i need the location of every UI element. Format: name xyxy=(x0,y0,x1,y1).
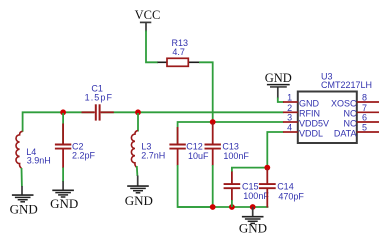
ground GND (L4) xyxy=(10,186,38,217)
svg-text:GND: GND xyxy=(10,202,38,217)
svg-text:470pF: 470pF xyxy=(278,192,304,202)
svg-text:1.5pF: 1.5pF xyxy=(85,92,114,102)
wire C15 top link xyxy=(232,168,267,172)
svg-text:VDDL: VDDL xyxy=(299,129,323,139)
pin 6 NC xyxy=(344,113,380,129)
node junction at C14 top xyxy=(264,165,270,171)
wire C12 to bottom net xyxy=(178,165,212,207)
svg-text:3: 3 xyxy=(287,113,292,123)
node junction VDD5V at C13 xyxy=(210,119,216,125)
wire C2 to GND xyxy=(62,168,64,182)
wire GND to pin 1 xyxy=(278,98,284,103)
svg-text:XOSC: XOSC xyxy=(331,98,357,108)
svg-text:VCC: VCC xyxy=(135,8,161,22)
power port VCC xyxy=(135,8,161,31)
pin 1 GND xyxy=(283,93,320,109)
svg-text:10uF: 10uF xyxy=(188,151,209,161)
node junction on RF net at L3 xyxy=(135,109,141,115)
wire main RF net xyxy=(23,112,94,132)
svg-text:8: 8 xyxy=(362,93,367,103)
svg-text:NC: NC xyxy=(344,109,357,119)
pin 3 VDD5V xyxy=(283,113,329,129)
svg-text:100nF: 100nF xyxy=(223,151,249,161)
svg-text:GND: GND xyxy=(299,98,320,108)
svg-text:1: 1 xyxy=(287,93,292,103)
svg-text:2.7nH: 2.7nH xyxy=(141,151,165,161)
svg-text:6: 6 xyxy=(362,113,367,123)
inductor L3 xyxy=(131,113,165,168)
svg-text:2: 2 xyxy=(287,103,292,113)
pin 2 RFIN xyxy=(283,103,320,119)
svg-text:DATA: DATA xyxy=(334,129,357,139)
power port GND (above U3) xyxy=(265,71,292,99)
wire L3 to GND xyxy=(136,166,139,176)
svg-text:GND: GND xyxy=(239,221,267,236)
svg-text:3.9nH: 3.9nH xyxy=(27,156,51,166)
capacitor C12 xyxy=(169,127,209,166)
svg-text:2.2pF: 2.2pF xyxy=(72,151,96,161)
op-amp U3 (IC CMT2217LH) xyxy=(298,71,372,143)
capacitor C14 xyxy=(259,169,305,208)
node junction bottom at GND tap xyxy=(250,204,256,210)
wire VCC to R13 xyxy=(146,31,158,63)
node junction bottom at C13 xyxy=(210,204,216,210)
svg-text:C14: C14 xyxy=(277,181,294,191)
node junction on RF net at C2 xyxy=(60,109,66,115)
wire bottom ground net xyxy=(178,206,269,208)
svg-text:C15: C15 xyxy=(242,181,259,191)
svg-text:4.7: 4.7 xyxy=(172,47,185,57)
capacitor C13 xyxy=(205,123,250,166)
wire C13 to bottom net xyxy=(212,165,214,207)
svg-text:GND: GND xyxy=(265,71,292,85)
svg-text:RFIN: RFIN xyxy=(299,109,320,119)
wire VDDL branch xyxy=(267,132,283,168)
pin 5 DATA xyxy=(334,123,379,139)
svg-text:7: 7 xyxy=(362,103,367,113)
wire R13 to VDD5V net xyxy=(199,62,213,122)
capacitor C2 xyxy=(55,113,96,168)
pin 7 NC xyxy=(344,103,380,119)
capacitor C1 xyxy=(82,84,114,121)
ground GND (bottom) xyxy=(239,207,267,236)
wire L4 to GND xyxy=(21,168,23,187)
pin 8 XOSC xyxy=(331,93,379,109)
resistor R13 xyxy=(158,38,200,66)
svg-text:5: 5 xyxy=(362,123,367,133)
node junction bottom at C15 xyxy=(229,204,235,210)
svg-text:GND: GND xyxy=(50,196,78,211)
svg-text:GND: GND xyxy=(125,193,153,208)
svg-text:CMT2217LH: CMT2217LH xyxy=(321,80,372,90)
svg-text:100nF: 100nF xyxy=(243,191,269,201)
wire VDD5V net horizontal xyxy=(178,122,284,144)
pin 4 VDDL xyxy=(283,123,323,139)
ground GND (C2) xyxy=(50,181,78,211)
svg-text:C12: C12 xyxy=(186,142,203,152)
wire C1 right to RFIN xyxy=(101,111,284,113)
inductor L4 xyxy=(16,131,51,168)
wire C15 to bottom net xyxy=(231,200,233,207)
capacitor C15 xyxy=(224,172,270,202)
svg-text:C13: C13 xyxy=(222,142,239,152)
svg-text:VDD5V: VDD5V xyxy=(299,119,329,129)
ground GND (L3) xyxy=(125,176,153,208)
svg-text:4: 4 xyxy=(287,123,292,133)
svg-text:NC: NC xyxy=(344,119,357,129)
